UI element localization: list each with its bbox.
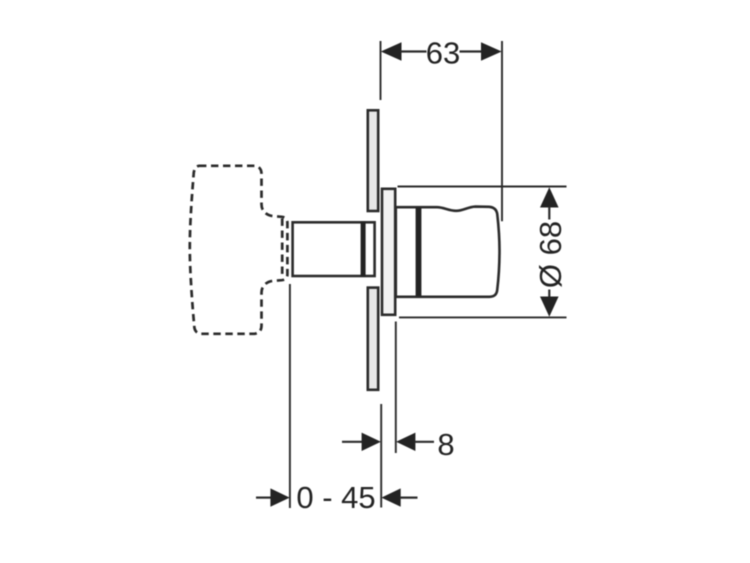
dim 0-45: right arrow <box>381 488 400 506</box>
hidden stem line (dashed, inner) <box>281 219 284 279</box>
dim 0-45: left extension line <box>289 284 291 508</box>
concealed valve body (dashed outline) <box>190 166 288 334</box>
dim Ø68: line to text <box>548 207 550 220</box>
dim 8: right arrow <box>396 433 415 451</box>
dim Ø68: line to bottom arrow <box>548 290 550 299</box>
dim 8: right extension line <box>395 322 397 454</box>
dim 63: line to text <box>401 50 427 52</box>
escutcheon plate upper part <box>368 110 378 211</box>
stem flange (thick divider) <box>361 221 366 276</box>
dim 63: left arrow <box>381 42 402 60</box>
dim 63: right extension line <box>501 41 503 221</box>
handle collar band (thick) <box>416 208 422 296</box>
dim Ø68: top arrow <box>540 187 559 207</box>
dim Ø68: bottom extension line <box>399 316 567 318</box>
dim 8: left leader line <box>342 441 363 443</box>
handle body <box>396 207 500 297</box>
dim 0-45: right leader line <box>400 497 418 499</box>
escutcheon plate lower part <box>368 288 378 390</box>
svg-text:0 - 45: 0 - 45 <box>296 480 375 515</box>
valve stem <box>293 222 375 276</box>
dim 8: left arrow <box>362 433 381 451</box>
dim 0-45: left arrow <box>270 488 289 506</box>
dim Ø68: bottom arrow <box>540 297 559 317</box>
dim 63: line to right arrow <box>460 50 483 52</box>
dim 8: line to text <box>414 441 434 443</box>
svg-text:63: 63 <box>426 35 460 70</box>
dim Ø68: top extension line <box>398 186 567 188</box>
svg-text:Ø 68: Ø 68 <box>533 221 568 288</box>
dim 8: left extension line (shared with dim 0-45 right side) <box>380 404 382 508</box>
dim 63: right arrow <box>481 42 502 60</box>
svg-text:8: 8 <box>437 427 454 462</box>
dim 63: left extension line <box>380 41 382 100</box>
dim 0-45: left leader line <box>256 497 272 499</box>
handle hub sleeve <box>382 189 395 315</box>
